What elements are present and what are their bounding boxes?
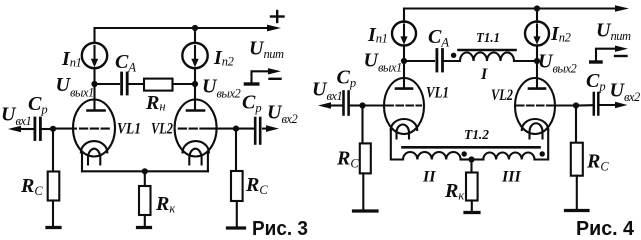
- wire Rc to ground left-right: [362, 173, 364, 209]
- wire CA to winding I: [444, 60, 460, 62]
- VL2 grid lead: [209, 128, 237, 130]
- wire Cp to grid node right: [350, 104, 363, 106]
- input arrow Uvh1: [8, 126, 33, 133]
- node Uvyh2 right: [534, 58, 540, 64]
- ground Rc right: [228, 226, 245, 229]
- svg-text:Uвх2: Uвх2: [610, 80, 641, 105]
- wire winding I to anode node 2: [514, 60, 537, 62]
- node Uvyh2: [192, 81, 198, 87]
- wire In2 leads right: [536, 9, 538, 62]
- output arrow Uvh2: [263, 125, 279, 132]
- current source In1 right: [392, 22, 416, 46]
- svg-text:Uвых1: Uвых1: [56, 74, 94, 100]
- VL1 cathode: [81, 141, 107, 152]
- polarity dot T1.1: [451, 53, 456, 58]
- transformer core T1.1: [459, 49, 516, 52]
- wire node to CA: [95, 83, 120, 85]
- svg-text:Рис. 4: Рис. 4: [576, 218, 635, 240]
- VL2 heater: [189, 149, 201, 165]
- capacitor Cp right: [255, 118, 260, 144]
- wire In2 leads: [194, 28, 196, 84]
- node Uvyh1: [91, 81, 97, 87]
- svg-text:Cр: Cр: [28, 93, 48, 117]
- svg-text:Uвх1: Uвх1: [1, 104, 31, 129]
- input arrow Uvh1 right: [318, 102, 342, 109]
- svg-text:Iп2: Iп2: [213, 47, 234, 69]
- svg-text:Cр: Cр: [337, 67, 357, 91]
- wire center tap to winding III: [472, 158, 484, 160]
- svg-text:RC: RC: [20, 175, 43, 198]
- VL1 right cathode: [391, 119, 417, 130]
- node Uvyh1 right: [401, 58, 407, 64]
- wire node to Rc right-right: [575, 106, 577, 143]
- svg-text:VL1: VL1: [426, 85, 449, 102]
- wire node to Rc left-right: [361, 106, 363, 144]
- resistor Rn: [144, 79, 173, 91]
- svg-text:III: III: [501, 169, 521, 186]
- wire grid node to Cp right-right: [576, 104, 593, 106]
- svg-text:Uпит: Uпит: [596, 20, 631, 44]
- wire grid node 2 to Cp right: [236, 128, 254, 130]
- node on rail: [192, 25, 198, 31]
- svg-text:CA: CA: [428, 26, 449, 50]
- svg-text:Iп1: Iп1: [367, 24, 387, 46]
- triode VL2 envelope: [175, 100, 217, 157]
- triode VL1 right envelope: [384, 78, 424, 134]
- ground Rc left-right: [354, 209, 378, 212]
- svg-text:Rк: Rк: [155, 193, 175, 216]
- node center tap: [468, 156, 474, 162]
- wire node to Rc left: [52, 129, 54, 172]
- transformer core T1.2: [403, 146, 540, 149]
- svg-text:II: II: [422, 169, 436, 186]
- svg-text:RC: RC: [245, 174, 268, 197]
- wire node to CA right: [404, 60, 434, 62]
- capacitor CA: [122, 73, 128, 94]
- minus supply terminal: [245, 68, 281, 84]
- transformer winding III: [483, 152, 534, 159]
- svg-text:Рис. 3: Рис. 3: [252, 218, 308, 240]
- plus terminal label: [271, 11, 284, 22]
- svg-text:VL2: VL2: [491, 87, 513, 104]
- ground Rc right-right: [566, 209, 589, 212]
- VL1 right anode: [396, 61, 412, 89]
- VL1 right grid (dashed): [387, 104, 422, 106]
- resistor Rc right-right: [571, 143, 583, 176]
- svg-text:Iп1: Iп1: [61, 48, 81, 70]
- wire cathode bus: [82, 170, 208, 172]
- svg-text:Uвых1: Uвых1: [364, 50, 402, 75]
- triode VL2 right envelope: [515, 78, 555, 134]
- svg-text:Cр: Cр: [242, 92, 262, 116]
- capacitor Cp right-right: [594, 93, 599, 115]
- wire top +Upit rail: [95, 25, 282, 43]
- svg-text:VL2: VL2: [151, 121, 173, 138]
- resistor Rk: [139, 186, 151, 215]
- triode VL1 envelope: [73, 100, 115, 157]
- ground Rc left: [47, 226, 60, 229]
- capacitor Cp left: [35, 118, 41, 140]
- wire In1 to anode node: [93, 68, 95, 84]
- ground Rk right: [465, 211, 479, 214]
- node cathode bus: [142, 168, 148, 174]
- polarity dot winding III: [540, 151, 545, 156]
- wire Rc to ground right-right: [576, 176, 578, 209]
- polarity dot winding II: [462, 151, 467, 156]
- capacitor CA right: [437, 50, 443, 72]
- VL1 anode: [88, 84, 105, 111]
- VL2 cathode: [183, 141, 209, 152]
- wire Cp to grid node: [42, 128, 53, 130]
- VL1 right grid lead: [363, 104, 385, 106]
- VL2 right anode: [529, 61, 545, 89]
- wire center tap to Rk right: [470, 160, 472, 173]
- svg-text:Uвх2: Uвх2: [267, 102, 298, 127]
- VL2 right cathode: [522, 119, 548, 130]
- wire Rc left to ground: [52, 201, 54, 227]
- wire winding II to center tap: [461, 158, 472, 160]
- svg-text:Cр: Cр: [586, 70, 606, 94]
- current source In1: [82, 43, 107, 68]
- svg-text:RC: RC: [586, 151, 609, 174]
- svg-text:Iп2: Iп2: [550, 23, 571, 45]
- svg-text:Rн: Rн: [145, 92, 165, 114]
- svg-text:T1.2: T1.2: [464, 128, 489, 143]
- svg-text:Uпит: Uпит: [249, 38, 284, 62]
- resistor Rk right: [466, 173, 478, 201]
- svg-text:I: I: [480, 66, 488, 83]
- VL1 right heater: [397, 125, 410, 139]
- wire node to Rc right: [235, 129, 237, 171]
- VL2 cathode lead: [207, 153, 209, 172]
- svg-text:Uвых2: Uвых2: [202, 76, 241, 101]
- resistor Rc left-right: [360, 143, 371, 173]
- wire Rn to anode node 2: [173, 83, 196, 85]
- wire Rk to ground: [144, 215, 146, 226]
- minus supply terminal right: [591, 46, 628, 63]
- VL2 right cathode lead: [535, 129, 549, 160]
- svg-text:T1.1: T1.1: [476, 31, 500, 46]
- wire In1 to anode node right: [403, 46, 405, 61]
- transformer winding II: [403, 152, 461, 160]
- node grid VL1 right: [359, 102, 365, 108]
- node rail right: [534, 5, 540, 11]
- VL2 right grid lead: [554, 104, 577, 106]
- VL2 anode: [187, 84, 204, 111]
- node grid VL1: [50, 126, 56, 132]
- VL2 right heater: [530, 123, 543, 138]
- capacitor Cp left-right: [344, 92, 349, 115]
- node grid VL2: [233, 126, 239, 132]
- current source In2 right: [525, 22, 549, 46]
- wire bus to Rk: [144, 171, 146, 186]
- VL1 heater: [88, 149, 100, 165]
- svg-text:RC: RC: [336, 148, 359, 171]
- VL2 right grid (dashed): [517, 104, 552, 106]
- wire top rail right: [404, 5, 629, 22]
- wire Rc right to ground: [236, 201, 238, 226]
- wire CA to Rn: [129, 83, 144, 85]
- VL1 cathode lead: [81, 153, 83, 172]
- output arrow Uvh2 right: [600, 102, 628, 108]
- svg-text:Rк: Rк: [444, 180, 464, 203]
- svg-text:VL1: VL1: [117, 121, 141, 138]
- resistor Rc right: [231, 171, 243, 201]
- current source In2: [182, 43, 207, 68]
- VL1 grid (dashed): [80, 128, 109, 130]
- VL1 grid lead: [53, 128, 76, 130]
- svg-text:CA: CA: [115, 51, 136, 75]
- svg-text:Uвых2: Uвых2: [538, 51, 577, 76]
- resistor Rc left: [48, 172, 60, 201]
- wire Rk right to ground: [471, 201, 473, 212]
- VL2 grid (dashed): [179, 128, 208, 130]
- ground Rk: [138, 226, 151, 229]
- VL1 right cathode lead: [391, 129, 403, 160]
- node grid VL2 right: [573, 102, 579, 108]
- transformer winding I: [460, 53, 514, 62]
